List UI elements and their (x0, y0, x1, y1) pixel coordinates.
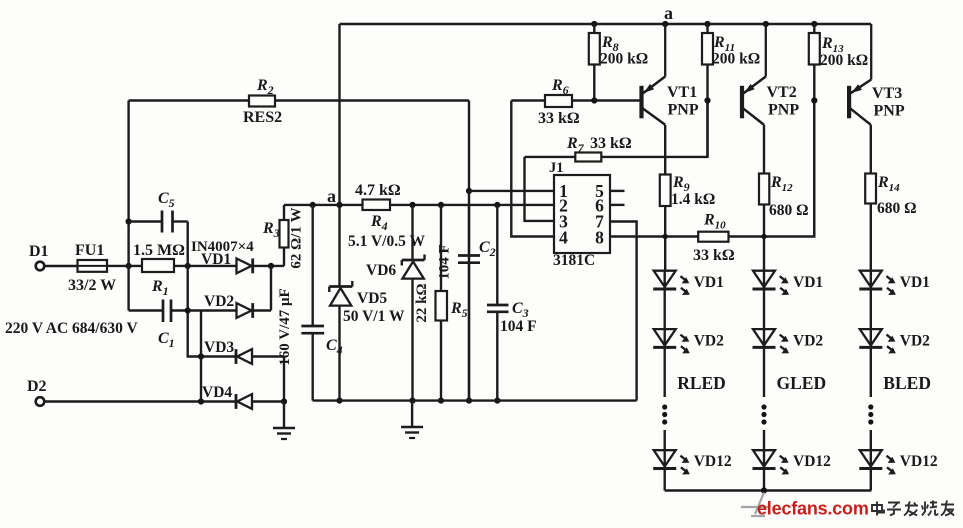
wire pin1 line (469, 190, 554, 192)
transistor Q3 VT3 (847, 86, 851, 119)
svg-text:C2: C2 (479, 239, 496, 259)
svg-text:VD2: VD2 (204, 293, 234, 310)
svg-text:PNP: PNP (874, 103, 905, 120)
wire R12 to GLED (763, 205, 765, 271)
resistor R4 (363, 200, 391, 211)
svg-text:VD2: VD2 (793, 333, 823, 350)
wire VT1 collector (664, 125, 666, 175)
junction dot VT1 emitter rail (662, 21, 668, 27)
resistor R7 (525, 156, 576, 158)
svg-text:160 V/47 μF: 160 V/47 μF (277, 288, 293, 365)
resistor R12 (759, 174, 769, 205)
resistor R3 (283, 205, 285, 220)
svg-text:R10: R10 (703, 212, 726, 232)
svg-text:elecfans.com: elecfans.com (757, 499, 869, 519)
wire RLED column upper (664, 271, 666, 397)
watermark chinese text (872, 501, 954, 516)
junction dot VD6 bottom (409, 398, 415, 404)
svg-text:PNP: PNP (668, 102, 699, 119)
svg-text:200 kΩ: 200 kΩ (712, 51, 760, 68)
junction dot C2 bottom (466, 398, 472, 404)
svg-text:GLED: GLED (777, 373, 827, 393)
svg-text:1.4 kΩ: 1.4 kΩ (671, 191, 715, 208)
svg-text:5.1 V/0.5 W: 5.1 V/0.5 W (348, 233, 425, 250)
LED VD12 G chain (753, 450, 775, 466)
svg-text:3181C: 3181C (553, 252, 595, 269)
svg-text:VD6: VD6 (366, 262, 396, 279)
svg-text:VT3: VT3 (872, 85, 902, 102)
svg-text:a: a (664, 3, 673, 23)
junction dot VD6 top (409, 202, 415, 208)
svg-text:VD1: VD1 (201, 251, 231, 268)
ground supply rail (411, 401, 413, 427)
svg-text:33 kΩ: 33 kΩ (538, 110, 580, 127)
svg-text:VD4: VD4 (202, 384, 232, 401)
wire pin4 line (511, 101, 554, 237)
wire R1 to right node (174, 265, 237, 267)
svg-text:220 V AC 684/630 V: 220 V AC 684/630 V (5, 320, 138, 337)
junction dot C1 right (185, 307, 191, 313)
svg-text:22 kΩ: 22 kΩ (414, 283, 430, 322)
wire VT2 collector (763, 125, 765, 174)
LED VD1 G chain (753, 271, 775, 287)
svg-text:VD3: VD3 (204, 339, 234, 356)
junction dot R11 bottom VT2 base (704, 97, 710, 103)
junction dot R9-pin8 (663, 234, 668, 239)
svg-text:33/2 W: 33/2 W (68, 277, 116, 294)
svg-text:VT1: VT1 (667, 84, 697, 101)
svg-text:VD12: VD12 (694, 453, 732, 470)
resistor R10 (698, 232, 728, 242)
svg-text:8: 8 (595, 228, 604, 248)
svg-text:VD1: VD1 (694, 274, 724, 291)
svg-text:RLED: RLED (677, 373, 726, 393)
svg-text:a: a (327, 186, 336, 206)
svg-text:680 Ω: 680 Ω (877, 200, 917, 217)
svg-text:680 Ω: 680 Ω (769, 202, 809, 219)
transistor Q1 VT1 (639, 86, 643, 119)
junction dot VD1 cathode (268, 263, 274, 269)
LED VD2 B chain (860, 329, 882, 345)
diode VD3 (235, 349, 238, 364)
wire GLED column lower (763, 430, 765, 491)
junction dot R11 top (704, 21, 710, 27)
junction dot R5 bottom (438, 398, 444, 404)
svg-text:C5: C5 (158, 190, 175, 210)
junction dot C3 bottom (494, 398, 500, 404)
junction dot C5 left (126, 218, 132, 224)
svg-text:104 F: 104 F (500, 318, 537, 335)
wire BLED column upper (870, 271, 872, 397)
LED VD12 B chain (860, 450, 882, 466)
wire GLED column upper (763, 271, 765, 397)
svg-text:4.7 kΩ: 4.7 kΩ (355, 182, 401, 199)
svg-text:62 Ω/1 W: 62 Ω/1 W (289, 207, 305, 268)
junction dot VD5 top (336, 202, 342, 208)
svg-text:VD2: VD2 (900, 333, 930, 350)
wire pin3 line via corner (525, 157, 555, 221)
junction dot VD3 crossing (198, 353, 204, 359)
svg-text:C3: C3 (512, 300, 529, 320)
svg-text:4: 4 (559, 228, 568, 248)
wire FU1 to node (107, 265, 142, 267)
diode VD4 (235, 394, 238, 409)
svg-text:1.5 MΩ: 1.5 MΩ (133, 242, 185, 259)
junction dot VD4 anode (281, 398, 287, 404)
junction dot D2-VD2 link (198, 398, 204, 404)
op-amp U1 J1 3181C IC body (554, 175, 610, 253)
svg-text:D1: D1 (29, 243, 49, 260)
svg-text:PNP: PNP (768, 102, 799, 119)
wire VD3-VD4 link (283, 357, 285, 402)
svg-text:50 V/1 W: 50 V/1 W (343, 308, 405, 325)
svg-text:VD12: VD12 (900, 453, 938, 470)
wire top supply rail (340, 23, 872, 26)
junction dot R13 bottom VT3 base (811, 97, 817, 103)
node RLED continuation dots (662, 404, 667, 409)
svg-text:R5: R5 (450, 300, 468, 320)
wire pin6 stub (610, 204, 625, 206)
junction dot VD5 bottom (336, 398, 342, 404)
svg-text:33 kΩ: 33 kΩ (693, 247, 735, 264)
svg-text:VD12: VD12 (793, 453, 831, 470)
junction dot C4 top (310, 202, 316, 208)
svg-text:J1: J1 (549, 160, 564, 176)
wire VD2 anode down to D2 (200, 311, 202, 402)
junction dot VT2 emitter rail (763, 21, 769, 27)
svg-text:C1: C1 (158, 330, 175, 350)
wire right-node vertical (188, 222, 236, 357)
svg-text:BLED: BLED (883, 373, 931, 393)
svg-text:RES2: RES2 (243, 109, 282, 126)
LED VD1 R chain (654, 271, 676, 287)
resistor R8 (593, 24, 595, 101)
wire feed from top rail (338, 24, 340, 286)
node BLED continuation dots (868, 404, 873, 409)
svg-text:VD1: VD1 (900, 274, 930, 291)
svg-text:R12: R12 (770, 174, 793, 194)
fuse FU1 (78, 260, 108, 272)
wire R9 to RLED (664, 206, 666, 271)
junction dot R5 top (438, 202, 444, 208)
resistor R11 (706, 24, 708, 157)
junction dot R8 bottom (591, 97, 597, 103)
resistor R5 (440, 205, 442, 291)
svg-text:VD1: VD1 (793, 274, 823, 291)
zener diode VD5 (329, 285, 352, 288)
wire D2 line (45, 400, 237, 402)
LED VD2 R chain (654, 329, 676, 345)
capacitor C3 (496, 205, 498, 305)
wire pin8 to R10 (610, 235, 698, 237)
wire RLED column lower (664, 430, 666, 491)
node D2 input terminal (36, 397, 45, 406)
svg-text:200 kΩ: 200 kΩ (600, 51, 648, 68)
wire ground rail (313, 399, 637, 401)
svg-text:R4: R4 (370, 213, 388, 233)
wire VD1-VD2 cathode link (270, 266, 272, 311)
wire pin7 to ground rail (610, 222, 637, 401)
ground bridge output (283, 402, 285, 429)
LED VD1 B chain (860, 271, 882, 287)
diode VD2 (237, 303, 252, 318)
junction dot right node (185, 263, 191, 269)
resistor R9 (660, 175, 671, 207)
junction dot C3 top (494, 202, 500, 208)
svg-text:R14: R14 (877, 174, 900, 194)
zener diode VD6 (411, 205, 413, 260)
wire node-a horizontal (284, 204, 554, 206)
transistor Q2 VT2 (740, 86, 744, 119)
junction dot GLED bottom (761, 487, 767, 493)
junction dot R8 top (591, 21, 597, 27)
wire R2 branch vertical (468, 101, 470, 401)
node GLED continuation dots (761, 404, 766, 409)
resistor R2 (129, 99, 249, 101)
junction dot R13 top (811, 21, 817, 27)
capacitor C1 (162, 300, 165, 323)
svg-text:VD2: VD2 (694, 333, 724, 350)
svg-text:D2: D2 (27, 378, 47, 395)
node D1 input terminal (36, 262, 45, 271)
resistor R13 (813, 24, 815, 237)
LED VD2 G chain (753, 329, 775, 345)
wire R14 to BLED (870, 204, 872, 271)
junction dot pin1 takeoff (466, 188, 472, 194)
resistor R14 (865, 174, 876, 204)
wire pin5 stub (610, 190, 625, 192)
svg-text:200 kΩ: 200 kΩ (820, 52, 868, 69)
svg-text:R1: R1 (151, 278, 169, 298)
wire D1 to FU1 (45, 265, 78, 267)
svg-text:R2: R2 (256, 77, 274, 97)
capacitor C5 (161, 211, 164, 233)
resistor R6 (511, 99, 545, 101)
svg-text:104 F: 104 F (437, 244, 453, 279)
capacitor C2 (468, 205, 470, 255)
wire VT3 collector (870, 125, 872, 174)
capacitor C4 (312, 205, 314, 326)
wire left-node vertical (127, 101, 129, 311)
svg-text:VD5: VD5 (357, 290, 387, 307)
junction dot R12-R10 (761, 234, 766, 239)
svg-text:33 kΩ: 33 kΩ (590, 135, 632, 152)
resistor R1 (142, 259, 174, 272)
svg-text:R3: R3 (262, 220, 280, 240)
wire BLED column lower (870, 430, 872, 491)
watermark gray mark (741, 493, 770, 517)
wire to C5 (129, 220, 162, 222)
svg-text:VT2: VT2 (767, 84, 797, 101)
junction dot left node top (126, 263, 132, 269)
diode VD1 (237, 259, 252, 274)
wire LED bottom rail (665, 489, 872, 491)
LED VD12 R chain (654, 450, 676, 466)
svg-text:FU1: FU1 (75, 242, 104, 259)
